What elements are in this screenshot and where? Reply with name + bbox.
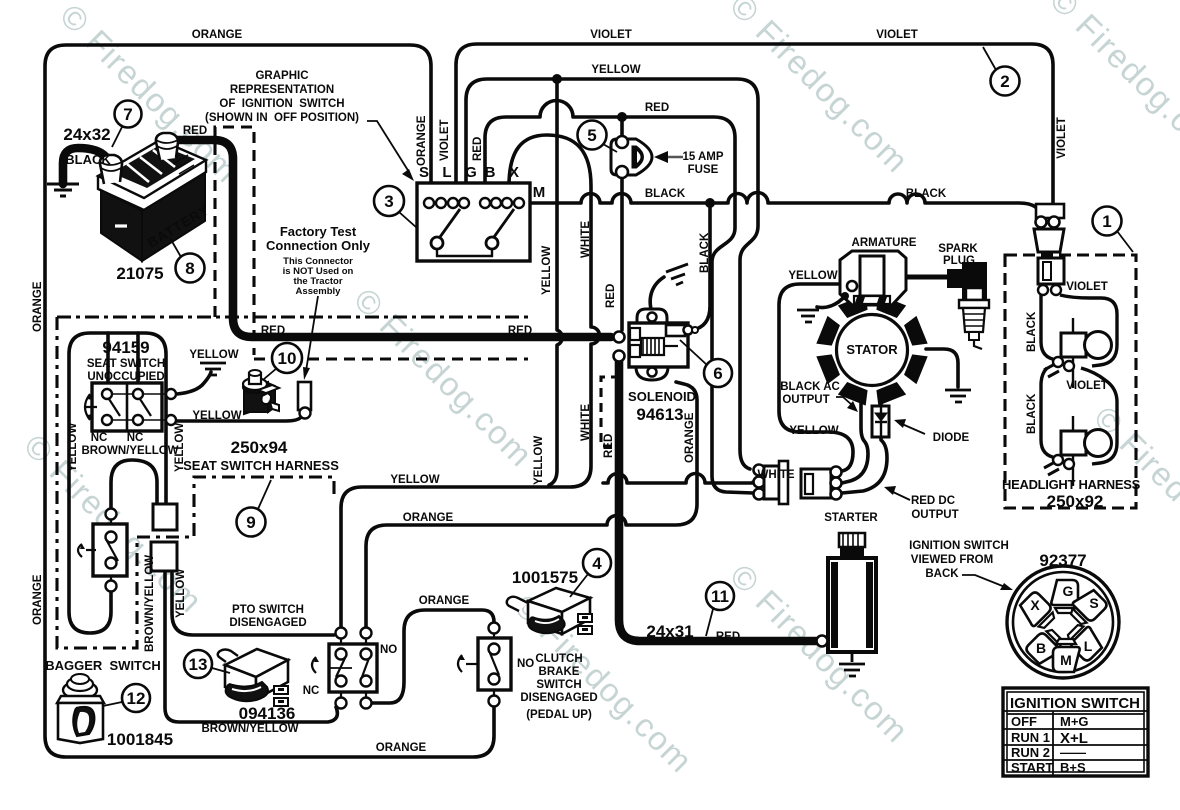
svg-text:YELLOW: YELLOW bbox=[390, 474, 439, 486]
svg-text:BLACK: BLACK bbox=[699, 232, 711, 273]
wire ignition switch internal dashed line bbox=[424, 219, 510, 221]
table text bbox=[1010, 695, 1140, 775]
svg-text:1: 1 bbox=[1102, 212, 1111, 231]
switch blades bbox=[440, 209, 460, 237]
svg-text:YELLOW: YELLOW bbox=[67, 423, 79, 472]
wire RED fuse top stub bbox=[620, 117, 624, 136]
seat harness connector box upper bbox=[153, 504, 177, 530]
clutch interlock 3D (1001575) bbox=[507, 588, 592, 634]
svg-text:4: 4 bbox=[592, 554, 602, 573]
svg-text:CLUTCH: CLUTCH bbox=[535, 653, 582, 665]
terminal B bbox=[1024, 626, 1066, 668]
svg-text:SEAT SWITCH: SEAT SWITCH bbox=[87, 358, 165, 370]
wire YELLOW from seat harness connector to PTO top left bbox=[172, 573, 334, 635]
svg-text:WHITE: WHITE bbox=[580, 221, 592, 258]
svg-text:RED: RED bbox=[183, 125, 207, 137]
wire BLACK from ignition M terminal to headlight connector bbox=[530, 193, 1040, 218]
node 4 callout bbox=[570, 549, 611, 597]
wire ORANGE perimeter: top run, left side, bottom run to clutch switch bbox=[45, 45, 494, 757]
svg-text:Factory Test: Factory Test bbox=[280, 224, 357, 239]
ground symbol solenoid bbox=[666, 264, 688, 285]
wire VIOLET top run from ignition L terminal to headlight connector bbox=[456, 44, 1053, 216]
svg-text:ORANGE: ORANGE bbox=[32, 281, 44, 332]
svg-text:9: 9 bbox=[246, 513, 255, 532]
seat harness connector box lower bbox=[151, 542, 177, 571]
svg-text:11: 11 bbox=[711, 587, 729, 606]
svg-text:250x92: 250x92 bbox=[1047, 492, 1104, 511]
svg-text:RED: RED bbox=[261, 325, 285, 337]
armature bbox=[840, 251, 906, 305]
svg-text:WHITE: WHITE bbox=[580, 404, 592, 441]
wire YELLOW seat switch to factory test connector bbox=[177, 416, 302, 421]
svg-text:RED DC: RED DC bbox=[911, 495, 955, 507]
svg-text:YELLOW: YELLOW bbox=[189, 349, 238, 361]
svg-text:YELLOW: YELLOW bbox=[789, 425, 838, 437]
svg-text:M+G: M+G bbox=[1060, 714, 1089, 729]
svg-text:15 AMP: 15 AMP bbox=[682, 151, 723, 163]
ground symbol armature bbox=[797, 310, 819, 322]
svg-text:RED: RED bbox=[472, 137, 484, 161]
svg-text:VIOLET: VIOLET bbox=[1066, 281, 1108, 293]
svg-text:RED: RED bbox=[605, 284, 617, 308]
svg-text:REPRESENTATION: REPRESENTATION bbox=[230, 84, 334, 96]
svg-text:ORANGE: ORANGE bbox=[684, 412, 696, 463]
connector block left (white/red harness plug) bbox=[754, 461, 789, 504]
wire seat switch drop right bbox=[136, 333, 140, 381]
wire YELLOW top run from ignition to right column bbox=[466, 79, 758, 469]
wire WHITE horizontal to connector block bbox=[603, 474, 753, 484]
arrow black ac output bbox=[836, 397, 852, 405]
headlight harness top connector bbox=[1034, 204, 1064, 252]
svg-text:YELLOW: YELLOW bbox=[591, 64, 640, 76]
arrow graphic representation leader bbox=[367, 121, 414, 181]
svg-text:7: 7 bbox=[123, 105, 132, 124]
svg-text:13: 13 bbox=[189, 655, 208, 674]
svg-text:RED: RED bbox=[508, 325, 532, 337]
wire ORANGE from clutch top to PTO bottom right bbox=[372, 610, 494, 703]
svg-text:DISENGAGED: DISENGAGED bbox=[520, 692, 597, 704]
node 10 callout bbox=[264, 343, 302, 379]
svg-text:Assembly: Assembly bbox=[296, 286, 342, 297]
svg-text:B: B bbox=[1036, 640, 1046, 656]
svg-text:8: 8 bbox=[185, 259, 194, 278]
wire spark plug lead bbox=[906, 275, 948, 280]
svg-text:1001845: 1001845 bbox=[107, 730, 173, 749]
svg-text:RED: RED bbox=[645, 102, 669, 114]
svg-text:M: M bbox=[1060, 652, 1072, 668]
wire dashed lower cable channel bbox=[254, 357, 528, 360]
ground symbol stator right bbox=[945, 390, 971, 402]
svg-text:VIOLET: VIOLET bbox=[1056, 117, 1068, 159]
svg-text:RED: RED bbox=[716, 631, 740, 643]
15 amp fuse bbox=[611, 136, 652, 178]
svg-text:ORANGE: ORANGE bbox=[416, 115, 428, 166]
diode bbox=[872, 406, 889, 437]
svg-text:12: 12 bbox=[127, 689, 146, 708]
svg-text:YELLOW: YELLOW bbox=[533, 436, 545, 485]
svg-text:BRAKE: BRAKE bbox=[539, 666, 580, 678]
svg-text:94159: 94159 bbox=[102, 338, 149, 357]
svg-text:G: G bbox=[1063, 583, 1074, 599]
svg-text:ARMATURE: ARMATURE bbox=[852, 237, 917, 249]
svg-text:6: 6 bbox=[713, 364, 722, 383]
svg-text:YELLOW: YELLOW bbox=[541, 246, 553, 295]
svg-text:BROWN/YELLOW: BROWN/YELLOW bbox=[81, 445, 178, 457]
svg-text:5: 5 bbox=[587, 126, 596, 145]
node 12 callout bbox=[103, 684, 150, 712]
node 13 callout bbox=[184, 650, 230, 678]
svg-text:NC: NC bbox=[303, 685, 320, 697]
svg-text:L: L bbox=[442, 164, 451, 181]
svg-text:BLACK AC: BLACK AC bbox=[780, 381, 840, 393]
ground symbol starter bbox=[839, 652, 865, 676]
svg-text:24x32: 24x32 bbox=[63, 125, 110, 144]
solenoid 94613 bbox=[614, 309, 699, 380]
svg-text:BROWN/YELLOW: BROWN/YELLOW bbox=[144, 555, 156, 652]
svg-text:94613: 94613 bbox=[636, 405, 683, 424]
svg-text:ORANGE: ORANGE bbox=[376, 742, 427, 754]
svg-text:094136: 094136 bbox=[239, 704, 296, 723]
svg-text:RUN 1: RUN 1 bbox=[1011, 730, 1050, 745]
headlight wire loop 2 bbox=[1041, 368, 1117, 464]
wire RED from ignition B terminal to fuse feed run bbox=[485, 101, 753, 494]
node 7 callout bbox=[112, 101, 142, 148]
terminal M bbox=[1053, 639, 1080, 672]
svg-text:21075: 21075 bbox=[116, 264, 163, 283]
wire 24x32 BLACK battery ground cable bbox=[63, 148, 114, 184]
svg-text:NO: NO bbox=[380, 644, 397, 656]
wire BLACK AC output from stator to connector bbox=[842, 396, 868, 483]
wire RED battery cable to solenoid bbox=[170, 140, 611, 337]
svg-text:3: 3 bbox=[384, 192, 393, 211]
svg-text:BLACK: BLACK bbox=[1026, 311, 1038, 352]
svg-text:VIOLET: VIOLET bbox=[1066, 380, 1108, 392]
svg-text:24x31: 24x31 bbox=[646, 622, 693, 641]
node 5 callout bbox=[578, 121, 618, 153]
wire seat switch to ground bbox=[177, 372, 211, 394]
svg-text:VIOLET: VIOLET bbox=[876, 29, 918, 41]
wire ORANGE middle run from PTO to solenoid area bbox=[366, 382, 697, 633]
arrow to fuse bbox=[663, 156, 683, 159]
svg-text:――: ―― bbox=[1060, 745, 1086, 760]
ignition switch box (graphic representation) bbox=[417, 183, 530, 261]
svg-text:RUN 2: RUN 2 bbox=[1011, 745, 1050, 760]
wire seat switch drop left bbox=[106, 333, 110, 381]
wire RED from fuse down to solenoid battery post bbox=[620, 178, 624, 330]
PTO switch contact box bbox=[312, 628, 377, 709]
svg-text:Connection Only: Connection Only bbox=[266, 238, 371, 253]
svg-text:NC: NC bbox=[127, 432, 144, 444]
headlight bulb 1 bbox=[1044, 318, 1112, 388]
wire armature ground hook bbox=[817, 296, 845, 308]
svg-text:BLACK: BLACK bbox=[1026, 393, 1038, 434]
wire BLACK from junction down to solenoid terminal bbox=[692, 203, 710, 330]
svg-text:X: X bbox=[1030, 597, 1040, 613]
svg-text:BACK: BACK bbox=[925, 568, 959, 580]
svg-text:ORANGE: ORANGE bbox=[32, 574, 44, 625]
seat switch 94159 bbox=[85, 383, 176, 431]
factory test connector bbox=[298, 382, 311, 419]
svg-text:UNOCCUPIED: UNOCCUPIED bbox=[87, 371, 164, 383]
node 3 callout bbox=[374, 186, 417, 228]
bagger switch contact box bbox=[78, 509, 127, 592]
svg-text:SEAT SWITCH HARNESS: SEAT SWITCH HARNESS bbox=[183, 458, 339, 473]
wire seat harness loop left leg and bottom U to bagger switch bbox=[69, 333, 166, 633]
stator bbox=[816, 294, 927, 405]
svg-text:92377: 92377 bbox=[1039, 551, 1086, 570]
svg-text:SWITCH: SWITCH bbox=[536, 679, 581, 691]
svg-text:1001575: 1001575 bbox=[512, 568, 578, 587]
svg-text:VIEWED FROM: VIEWED FROM bbox=[911, 554, 993, 566]
node 9 callout bbox=[237, 480, 272, 537]
svg-text:PLUG: PLUG bbox=[943, 255, 975, 267]
arrow red dc output bbox=[893, 492, 910, 500]
rear view terminal letters bbox=[1030, 583, 1098, 668]
battery 21075 bbox=[98, 133, 212, 261]
svg-text:250x94: 250x94 bbox=[231, 438, 288, 457]
svg-text:DISENGAGED: DISENGAGED bbox=[229, 617, 306, 629]
wire RED DC output from diode to connector bbox=[842, 437, 887, 493]
ground symbol seat switch bbox=[200, 363, 226, 375]
svg-text:YELLOW: YELLOW bbox=[788, 270, 837, 282]
junction dots bbox=[552, 74, 715, 208]
svg-text:WHITE: WHITE bbox=[757, 469, 794, 481]
terminal G bbox=[1051, 580, 1078, 613]
svg-text:OUTPUT: OUTPUT bbox=[911, 509, 958, 521]
svg-text:L: L bbox=[1084, 638, 1093, 654]
svg-text:B: B bbox=[485, 164, 496, 181]
svg-text:NO: NO bbox=[517, 658, 534, 670]
terminal X bbox=[1016, 590, 1058, 632]
svg-text:IGNITION SWITCH: IGNITION SWITCH bbox=[1010, 695, 1140, 712]
svg-text:OUTPUT: OUTPUT bbox=[782, 394, 829, 406]
svg-text:(PEDAL UP): (PEDAL UP) bbox=[526, 709, 592, 721]
svg-text:IGNITION SWITCH: IGNITION SWITCH bbox=[909, 540, 1009, 552]
wire WHITE from ignition X terminal, arch over yellow, down to PTO switch bbox=[341, 135, 600, 626]
wire dash-dot harness boundary horizontal bbox=[57, 315, 528, 318]
svg-text:START: START bbox=[1011, 760, 1053, 775]
headlight inner connector bbox=[1038, 258, 1064, 295]
svg-text:FUSE: FUSE bbox=[688, 164, 719, 176]
starter bbox=[817, 533, 877, 652]
svg-text:2: 2 bbox=[1000, 72, 1009, 91]
svg-text:VIOLET: VIOLET bbox=[439, 119, 451, 161]
svg-text:NC: NC bbox=[91, 432, 108, 444]
ground symbol battery bbox=[47, 184, 79, 196]
headlight bulb 2 bbox=[1044, 416, 1112, 486]
battery post positive bbox=[156, 133, 178, 160]
svg-text:ORANGE: ORANGE bbox=[403, 512, 454, 524]
wire YELLOW vertical middle column bbox=[549, 79, 562, 485]
battery post negative bbox=[100, 155, 122, 184]
node 1 callout bbox=[1093, 207, 1134, 253]
headlight wire loop 1 bbox=[1041, 295, 1117, 366]
svg-text:STARTER: STARTER bbox=[824, 512, 878, 524]
svg-text:S: S bbox=[1089, 595, 1098, 611]
wire stator to diode bbox=[879, 396, 883, 407]
svg-text:M: M bbox=[533, 184, 546, 201]
wire seat switch harness dash-dot boundary bbox=[57, 317, 334, 648]
svg-text:YELLOW: YELLOW bbox=[192, 410, 241, 422]
svg-text:YELLOW: YELLOW bbox=[175, 569, 187, 618]
svg-text:DIODE: DIODE bbox=[933, 432, 970, 444]
ignition terminal letters bbox=[419, 164, 545, 201]
node 11 callout bbox=[706, 582, 734, 636]
wire solenoid ground hook bbox=[650, 277, 664, 320]
svg-text:BAGGER SWITCH: BAGGER SWITCH bbox=[45, 658, 161, 673]
svg-text:BLACK: BLACK bbox=[645, 188, 686, 200]
wire BROWN/YELLOW arch from bagger top to connector bbox=[111, 460, 157, 509]
svg-text:BROWN/YELLOW: BROWN/YELLOW bbox=[201, 723, 298, 735]
svg-text:B+S: B+S bbox=[1060, 760, 1086, 775]
wire BROWN/YELLOW from PTO bottom left to seat harness connector bbox=[165, 573, 337, 722]
svg-text:GRAPHIC: GRAPHIC bbox=[255, 70, 308, 82]
svg-text:G: G bbox=[465, 164, 477, 181]
wire stator right to ground bbox=[926, 349, 958, 387]
svg-text:SOLENOID: SOLENOID bbox=[628, 389, 696, 404]
ignition switch table bbox=[1003, 688, 1148, 776]
relay (circle 10 component) bbox=[243, 370, 279, 414]
terminal L bbox=[1064, 620, 1106, 662]
svg-text:SPARK: SPARK bbox=[938, 243, 978, 255]
svg-text:10: 10 bbox=[278, 349, 297, 368]
PTO switch 3D (094136) bbox=[218, 649, 288, 706]
ignition switch 92377 rear view bbox=[1007, 566, 1119, 678]
svg-text:PTO SWITCH: PTO SWITCH bbox=[232, 604, 304, 616]
svg-text:STATOR: STATOR bbox=[846, 342, 898, 357]
svg-text:RED: RED bbox=[603, 434, 615, 458]
terminal S bbox=[1066, 586, 1108, 628]
arrow factory test bbox=[303, 296, 318, 380]
bagger switch plunger (1001845) bbox=[57, 674, 104, 743]
wire YELLOW armature loop to connector bbox=[779, 284, 853, 471]
wire 24x31 RED cable solenoid to starter bbox=[619, 361, 818, 641]
wire factory test dashed box bbox=[215, 127, 254, 355]
svg-text:X: X bbox=[509, 164, 519, 181]
node 2 callout bbox=[983, 47, 1020, 96]
svg-text:ORANGE: ORANGE bbox=[419, 595, 470, 607]
svg-text:VIOLET: VIOLET bbox=[590, 29, 632, 41]
clutch brake switch contact box bbox=[458, 623, 511, 707]
node 8 callout bbox=[170, 238, 205, 283]
factory test block bbox=[266, 224, 371, 297]
svg-text:BLACK: BLACK bbox=[65, 152, 111, 167]
wire headlight harness dashed box bbox=[1005, 255, 1136, 508]
connector block right (stator plug) bbox=[801, 467, 842, 500]
wire dashed bracket at solenoid posts bbox=[601, 377, 620, 446]
svg-text:(SHOWN IN OFF POSITION): (SHOWN IN OFF POSITION) bbox=[205, 112, 359, 124]
node 6 callout bbox=[680, 340, 732, 387]
svg-text:ORANGE: ORANGE bbox=[192, 29, 243, 41]
spark plug bbox=[948, 263, 989, 349]
svg-text:OF IGNITION SWITCH: OF IGNITION SWITCH bbox=[219, 98, 344, 110]
svg-text:HEADLIGHT HARNESS: HEADLIGHT HARNESS bbox=[1002, 477, 1141, 492]
svg-text:BLACK: BLACK bbox=[906, 188, 947, 200]
svg-text:OFF: OFF bbox=[1011, 714, 1037, 729]
